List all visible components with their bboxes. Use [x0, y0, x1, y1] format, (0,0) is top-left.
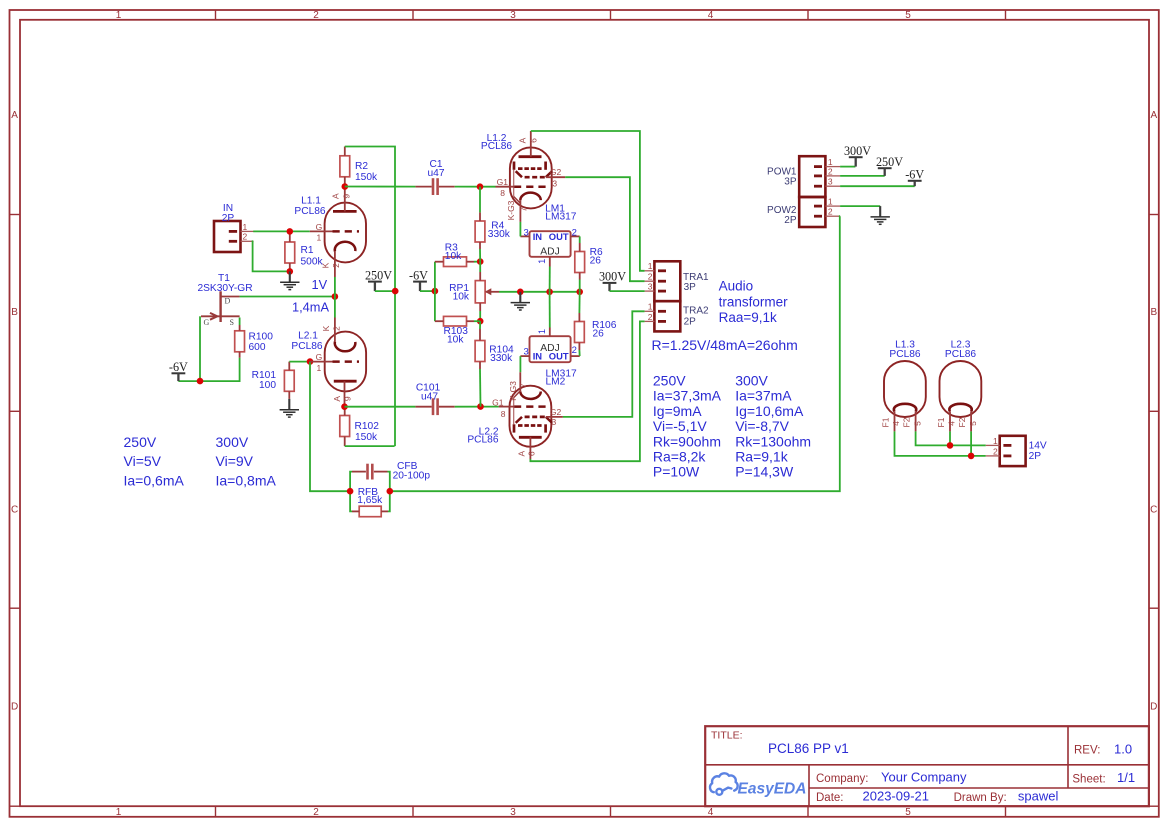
connector POW2 2P [799, 197, 825, 227]
wire C1 left to R2 node [345, 186, 416, 188]
wire R101 to L2.1 grid [289, 361, 310, 363]
svg-text:PCL86: PCL86 [945, 349, 976, 360]
svg-text:2: 2 [648, 272, 653, 282]
svg-text:C: C [1150, 504, 1157, 515]
node R102 top / C101 [341, 403, 348, 410]
wire R6 bottom to bus [579, 280, 581, 292]
svg-text:G: G [204, 318, 210, 327]
node RFB right [387, 488, 394, 495]
node 250V rail junction [392, 288, 399, 295]
svg-text:600: 600 [249, 342, 266, 353]
svg-text:Ia=0,8mA: Ia=0,8mA [216, 472, 277, 488]
resistor R103 [444, 316, 467, 326]
wire R100 bottom to -6V rail [178, 358, 239, 381]
svg-text:K: K [321, 262, 331, 268]
transistor T1 2SK30Y-GR [219, 291, 221, 322]
svg-text:1: 1 [828, 197, 833, 207]
svg-text:Ig=10,6mA: Ig=10,6mA [735, 403, 804, 419]
wire -6V rail vertical [434, 262, 436, 322]
tube L1.3 PCL86 heater [884, 361, 926, 417]
wire LM2 IN to L2.2 cathode [519, 356, 521, 372]
svg-text:IN: IN [533, 231, 543, 242]
node RFB left [347, 488, 354, 495]
wire RP1 wiper bus [499, 291, 580, 293]
svg-text:Vi=5V: Vi=5V [124, 453, 162, 469]
wire CFB/RFB left node [350, 472, 352, 512]
wire R3 right to node [474, 261, 480, 263]
wire L2.1 cathode to 1V node [334, 297, 336, 318]
connector 14V 2P [1000, 436, 1026, 466]
wire R106 bottom to LM2 OUT [578, 350, 580, 356]
svg-text:1: 1 [648, 302, 653, 312]
svg-text:2: 2 [313, 807, 319, 818]
svg-text:LM317: LM317 [545, 212, 576, 223]
svg-text:2P: 2P [222, 213, 235, 224]
svg-text:300V: 300V [216, 434, 249, 450]
svg-text:L2.1: L2.1 [298, 331, 318, 342]
svg-text:250V: 250V [365, 268, 392, 282]
wire L2.2 G2 to TRA2 pin1 [546, 416, 563, 418]
svg-text:G: G [316, 352, 323, 362]
svg-text:R1: R1 [301, 245, 314, 256]
svg-text:A: A [1150, 110, 1157, 121]
svg-text:2P: 2P [1029, 451, 1042, 462]
node heater pin1 wire [947, 442, 954, 449]
svg-text:G2: G2 [550, 407, 562, 417]
wire POW2 pin1 to ground [840, 205, 880, 207]
svg-text:2: 2 [572, 345, 577, 356]
wire RP1 top [479, 262, 481, 272]
svg-text:6: 6 [528, 138, 538, 143]
svg-text:spawel: spawel [1018, 789, 1059, 804]
svg-text:2: 2 [243, 232, 248, 242]
wire C101 right to L2.2 grid [455, 406, 499, 408]
power flag 300V mid [603, 282, 617, 284]
svg-text:Ra=8,2k: Ra=8,2k [653, 449, 707, 465]
triode L2.1 PCL86 [325, 332, 366, 392]
node R1 bottom [287, 268, 294, 275]
power flag 250V top [878, 167, 892, 169]
svg-text:1: 1 [116, 10, 122, 21]
resistor R100 [235, 331, 245, 352]
svg-text:3: 3 [828, 177, 833, 187]
op-amp U LM1 LM317 box [530, 231, 571, 257]
svg-text:K-G3: K-G3 [508, 381, 518, 401]
svg-text:Vi=-5,1V: Vi=-5,1V [653, 418, 707, 434]
svg-text:OUT: OUT [549, 350, 569, 361]
wire 14V pin2 to heaters [895, 431, 986, 456]
svg-text:5: 5 [968, 421, 978, 426]
svg-text:300V: 300V [599, 270, 626, 284]
power flag -6V top [908, 180, 922, 182]
svg-text:3P: 3P [684, 282, 697, 293]
svg-text:B: B [11, 307, 18, 318]
svg-text:G2: G2 [550, 167, 562, 177]
resistor RFB [359, 506, 381, 517]
svg-text:Vi=-8,7V: Vi=-8,7V [735, 418, 789, 434]
wire T1 drain to 1V node [240, 296, 335, 298]
svg-text:EasyEDA: EasyEDA [738, 780, 807, 797]
node R103/RP1/R104 [477, 318, 484, 325]
title block [705, 726, 1149, 806]
svg-text:1: 1 [537, 259, 547, 264]
node R1 top [287, 228, 294, 235]
svg-text:-6V: -6V [169, 360, 188, 374]
svg-text:A: A [11, 110, 18, 121]
svg-text:REV:: REV: [1074, 744, 1100, 756]
ground under R101 [288, 399, 290, 409]
svg-text:Rk=90ohm: Rk=90ohm [653, 433, 721, 449]
svg-text:150k: 150k [355, 172, 378, 183]
svg-text:R102: R102 [355, 421, 380, 432]
potentiometer RP1 [475, 281, 485, 303]
svg-text:6: 6 [527, 451, 537, 456]
svg-text:Ig=9mA: Ig=9mA [653, 403, 702, 419]
wire 300V flag to TRA1 pin3 [610, 290, 645, 292]
wire -6V flag to -6V rail [420, 290, 435, 292]
svg-text:4: 4 [891, 421, 901, 426]
svg-text:R=1.25V/48mA=26ohm: R=1.25V/48mA=26ohm [652, 337, 798, 353]
svg-text:PCL86: PCL86 [291, 341, 322, 352]
svg-text:L1.1: L1.1 [301, 196, 321, 207]
svg-text:A: A [331, 193, 341, 199]
svg-text:8: 8 [501, 409, 506, 419]
svg-text:2: 2 [828, 166, 833, 176]
resistor R3 [444, 257, 467, 267]
svg-text:2: 2 [331, 263, 341, 268]
svg-text:300V: 300V [735, 373, 768, 389]
wire R106 top to bus [578, 292, 580, 313]
svg-text:Date:: Date: [816, 792, 844, 804]
resistor R102 [340, 416, 350, 437]
resistor R6 [575, 252, 585, 273]
svg-text:1: 1 [537, 329, 547, 334]
svg-text:100: 100 [259, 380, 276, 391]
svg-text:20-100p: 20-100p [393, 470, 431, 481]
svg-text:PCL86: PCL86 [294, 206, 325, 217]
svg-text:G1: G1 [492, 397, 504, 407]
svg-text:Drawn By:: Drawn By: [954, 792, 1007, 804]
svg-text:R100: R100 [249, 332, 274, 343]
svg-text:3: 3 [648, 282, 653, 292]
svg-text:1: 1 [116, 807, 122, 818]
svg-text:u47: u47 [428, 168, 445, 179]
wire T1 gate down to -6V rail [199, 316, 201, 381]
svg-text:250V: 250V [124, 434, 157, 450]
wire 250V flag to rail [375, 290, 395, 292]
wire IN pin1 to L1.1 grid [253, 230, 310, 232]
svg-text:G1: G1 [497, 177, 509, 187]
svg-text:R2: R2 [355, 161, 368, 172]
resistor R2 [340, 156, 350, 177]
svg-text:300V: 300V [844, 144, 871, 158]
triode L1.1 PCL86 [325, 203, 366, 263]
wire POW1 pin2 to 250V [840, 175, 885, 177]
svg-text:Your Company: Your Company [881, 770, 967, 785]
wire L1.2 anode to TRA1 pin1 [531, 131, 645, 271]
svg-text:LM2: LM2 [546, 376, 566, 387]
svg-text:Ia=0,6mA: Ia=0,6mA [124, 472, 185, 488]
svg-text:1.0: 1.0 [1114, 741, 1132, 756]
svg-text:2023-09-21: 2023-09-21 [863, 789, 930, 804]
power flag -6V left [172, 372, 186, 374]
wire C101 left to R102 node [345, 406, 416, 408]
wire LM1 ADJ to bus [549, 267, 551, 292]
svg-text:D: D [1150, 702, 1157, 713]
power flag 250V mid [368, 281, 382, 283]
wire R2 top to 250V rail [345, 147, 395, 447]
wire IN pin2 down to R1 bottom node [253, 241, 290, 271]
svg-text:F2: F2 [957, 417, 967, 427]
svg-text:PCL86: PCL86 [467, 434, 498, 445]
svg-text:PCL86: PCL86 [889, 349, 920, 360]
node R6/R106 bus [576, 289, 583, 296]
svg-text:2: 2 [828, 207, 833, 217]
svg-text:2: 2 [648, 312, 653, 322]
svg-text:D: D [11, 702, 18, 713]
wire 14V pin1 to heaters [916, 431, 986, 445]
svg-text:P=14,3W: P=14,3W [735, 464, 794, 480]
connector POW1 3P [799, 156, 825, 197]
svg-text:2: 2 [331, 326, 341, 331]
svg-text:Sheet:: Sheet: [1072, 773, 1105, 785]
svg-text:4: 4 [947, 421, 957, 426]
node C1 right / R4 top [477, 183, 484, 190]
svg-text:26: 26 [590, 256, 602, 267]
svg-text:F2: F2 [902, 417, 912, 427]
wire R4 top to C1 node [479, 187, 481, 213]
svg-text:2P: 2P [684, 316, 697, 327]
node ADJ bus [546, 289, 553, 296]
svg-text:ADJ: ADJ [540, 246, 559, 257]
op-amp U LM2 LM317 box [530, 336, 571, 362]
svg-text:A: A [516, 451, 526, 457]
svg-text:G: G [316, 222, 323, 232]
wire LM2 ADJ to bus [549, 292, 551, 328]
svg-text:330k: 330k [488, 229, 511, 240]
svg-text:250V: 250V [653, 373, 686, 389]
resistor R101 [284, 370, 294, 391]
resistor R104 [475, 341, 485, 362]
wire LM1 OUT to R6 [579, 236, 581, 243]
svg-text:Company:: Company: [816, 773, 868, 785]
wire L1.2 G2 to TRA1 pin2 [546, 176, 565, 178]
wire L2.1 grid lead [310, 361, 333, 363]
connector TRA2 2P [654, 301, 680, 331]
svg-text:1: 1 [317, 363, 322, 373]
resistor R4 [475, 221, 485, 242]
node 1V cathode junction [332, 293, 339, 300]
svg-text:5: 5 [905, 10, 911, 21]
svg-text:F1: F1 [936, 417, 946, 427]
svg-text:IN: IN [533, 350, 543, 361]
wire feedback vertical down to RFB network [310, 362, 350, 492]
svg-text:9: 9 [342, 194, 352, 199]
svg-text:Vi=9V: Vi=9V [216, 453, 254, 469]
pin 2 of IN [241, 240, 254, 242]
svg-text:4: 4 [708, 807, 714, 818]
svg-text:-6V: -6V [905, 168, 924, 182]
svg-text:3P: 3P [784, 177, 797, 188]
svg-text:R101: R101 [252, 370, 277, 381]
wire POW2 pin2 heater feed down-left to RFB node [390, 216, 840, 491]
svg-text:14V: 14V [1029, 440, 1047, 451]
svg-text:1,4mA: 1,4mA [292, 300, 329, 315]
svg-text:1V: 1V [312, 277, 328, 292]
svg-text:1,65k: 1,65k [357, 495, 383, 506]
ground under R1 [289, 271, 291, 281]
svg-text:u47: u47 [421, 392, 438, 403]
svg-text:7: 7 [519, 207, 529, 212]
wire R104 bottom to C101 node [479, 369, 482, 407]
svg-text:Ra=9,1k: Ra=9,1k [735, 449, 789, 465]
svg-text:Rk=130ohm: Rk=130ohm [735, 433, 811, 449]
svg-text:S: S [230, 318, 234, 327]
svg-text:K-G3: K-G3 [506, 200, 516, 220]
svg-text:1/1: 1/1 [1117, 770, 1135, 785]
wire POW1 pin3 to -6V [840, 185, 915, 187]
svg-text:10k: 10k [445, 251, 462, 262]
wire L1.2 grid lead [496, 186, 515, 188]
wire R4 bottom to node [479, 249, 481, 262]
node -6V rail junction [432, 288, 439, 295]
svg-text:1: 1 [317, 233, 322, 243]
svg-text:D: D [225, 296, 231, 305]
svg-text:-6V: -6V [409, 268, 428, 282]
wire L2.2 anode to TRA2 pin2 [530, 321, 644, 461]
ground at wiper bus [519, 292, 521, 302]
svg-text:3: 3 [510, 10, 516, 21]
svg-text:C: C [11, 504, 18, 515]
svg-text:A: A [332, 396, 342, 402]
ground at POW2 pin1 [879, 206, 881, 216]
node C101 right / R104 bottom [477, 403, 484, 410]
node heater pin2 wire [968, 453, 975, 460]
svg-text:3: 3 [552, 417, 557, 427]
svg-text:PCL86: PCL86 [481, 141, 512, 152]
wire T1 source to R100 [239, 318, 241, 326]
svg-text:OUT: OUT [549, 231, 569, 242]
pentode L2.2 PCL86 [510, 386, 552, 447]
node L2.1 grid / feedback tap [307, 358, 314, 365]
wire POW1 pin1 to 300V [840, 166, 855, 168]
svg-text:150k: 150k [355, 432, 378, 443]
svg-text:2SK30Y-GR: 2SK30Y-GR [197, 283, 252, 294]
wire L2.2 grid lead [499, 406, 514, 408]
wire L1.1 grid lead [310, 230, 333, 232]
tube L2.3 PCL86 heater [940, 361, 982, 417]
svg-text:TRA2: TRA2 [683, 306, 709, 317]
wire L1.2 cathode pin to LM1 IN [519, 222, 521, 237]
svg-text:3: 3 [552, 178, 557, 188]
connector IN 2P [214, 221, 241, 252]
svg-text:2P: 2P [784, 215, 797, 226]
capacitor CFB [366, 464, 369, 480]
node wiper ground [517, 289, 524, 296]
svg-text:2: 2 [313, 10, 319, 21]
svg-text:Ia=37,3mA: Ia=37,3mA [653, 388, 722, 404]
svg-text:Audio: Audio [719, 279, 754, 294]
node R2 bottom / C1 [342, 183, 349, 190]
svg-text:K: K [321, 325, 331, 331]
svg-text:2: 2 [993, 446, 998, 456]
wire CFB/RFB right node [388, 472, 390, 512]
svg-text:7: 7 [518, 383, 528, 388]
node -6V gate junction [197, 378, 204, 385]
svg-text:3: 3 [510, 807, 516, 818]
svg-text:8: 8 [500, 188, 505, 198]
svg-text:Raa=9,1k: Raa=9,1k [719, 310, 777, 325]
node R3/R4/RP1 [477, 258, 484, 265]
svg-text:B: B [1150, 307, 1157, 318]
svg-text:TITLE:: TITLE: [711, 730, 743, 742]
svg-text:26: 26 [593, 329, 605, 340]
svg-text:P=10W: P=10W [653, 464, 700, 480]
svg-text:4: 4 [708, 10, 714, 21]
svg-text:250V: 250V [876, 155, 903, 169]
pin 1 of IN [241, 230, 254, 232]
power flag -6V mid [413, 281, 427, 283]
svg-text:1: 1 [243, 222, 248, 232]
wire R102 bottom to 250V rail [345, 445, 395, 447]
wire R104 top [479, 321, 481, 329]
svg-text:transformer: transformer [719, 294, 789, 309]
svg-text:10k: 10k [453, 292, 470, 303]
wire RP1 bottom [479, 303, 481, 311]
svg-text:F1: F1 [881, 417, 891, 427]
svg-text:9: 9 [342, 396, 352, 401]
connector TRA1 3P [654, 261, 680, 301]
wire L1.1 cathode to 1V node [334, 277, 336, 297]
svg-text:1: 1 [648, 261, 653, 271]
svg-text:5: 5 [905, 807, 911, 818]
svg-text:10k: 10k [447, 334, 464, 345]
pentode L1.2 PCL86 [510, 147, 552, 208]
svg-text:Ia=37mA: Ia=37mA [735, 388, 792, 404]
resistor R1 [285, 242, 295, 263]
svg-text:330k: 330k [490, 353, 513, 364]
svg-text:A: A [518, 137, 528, 143]
capacitor C101 [432, 398, 435, 415]
svg-text:5: 5 [912, 421, 922, 426]
wire C1 right to L1.2 grid [455, 186, 496, 188]
power flag 300V top [849, 156, 863, 158]
svg-text:PCL86 PP v1: PCL86 PP v1 [768, 741, 849, 756]
EasyEDA logo [710, 773, 738, 794]
svg-text:1: 1 [993, 436, 998, 446]
resistor R106 [575, 322, 585, 343]
capacitor C1 [432, 178, 435, 195]
